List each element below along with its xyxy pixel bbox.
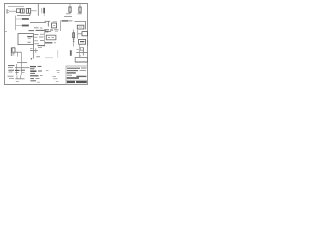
wire [75,21,86,29]
resistor R5 [22,18,29,20]
wire [61,20,73,22]
battery BT1 [79,39,86,44]
label text [15,70,25,72]
label text [8,66,15,72]
wire [15,67,30,69]
resistor R4 [78,4,83,14]
wire [57,50,59,58]
label text [29,30,49,31]
wire [60,21,62,31]
label text [34,27,43,29]
transistor Q3 [76,44,87,57]
capacitor C2 [70,50,72,56]
ic U1 [18,34,34,45]
label text [30,76,43,83]
wire [44,30,46,47]
wire [17,14,30,16]
wire [15,75,24,81]
wire [30,22,46,24]
resistor R6 [22,25,29,27]
node A [31,58,33,60]
wire [9,10,17,12]
resistor R2 [21,9,25,13]
transistor Q2 [30,48,38,53]
label text [46,70,60,72]
wire [87,40,89,46]
wire [77,30,79,39]
capacitor C1 [42,8,45,16]
resistor R3 [66,4,71,14]
wire [62,20,68,22]
transistor Q1 [45,21,58,26]
wire [16,25,22,27]
resistor R7 [73,30,75,47]
resistor R1 [17,9,21,13]
wire [15,16,17,30]
pin labels [34,34,44,44]
connector J2 [11,48,15,57]
revision box [75,57,87,62]
wire [33,45,35,59]
wire [21,52,23,75]
wire [17,52,19,56]
title block [66,66,88,84]
label text [17,62,27,64]
component box [52,23,57,28]
switch S1 [78,32,88,36]
label text [36,46,44,57]
wire [31,10,37,12]
wire [37,4,39,16]
label text [30,66,42,73]
label text [52,77,58,82]
wire [45,57,53,59]
wire [42,30,47,32]
wire [16,18,22,20]
connector J1 [7,9,9,14]
label text [44,30,59,32]
relay K1 [26,9,30,14]
wire [16,64,18,75]
frame is decorative [5,4,88,85]
wire [15,51,22,53]
label text [8,76,15,78]
wire [45,42,52,44]
label text [64,15,72,17]
component box U2 [46,35,56,40]
inductor L1 [77,25,84,29]
